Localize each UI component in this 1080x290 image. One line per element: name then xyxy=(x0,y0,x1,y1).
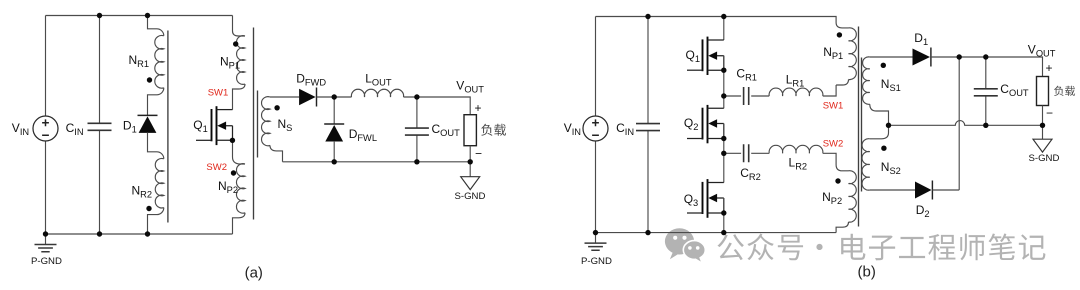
P-GND symbol (b) xyxy=(595,233,597,244)
wire center tap return with hop (b) xyxy=(889,121,1043,126)
transformer core (a) xyxy=(168,28,258,223)
load resistor (a) xyxy=(464,115,476,146)
capacitor C_R1 (b) xyxy=(724,95,769,97)
polarity dot N_R2 xyxy=(146,206,151,211)
polarity dot N_P2 xyxy=(231,170,236,175)
wire D2 vertical link (b) xyxy=(958,57,960,190)
load resistor (b) xyxy=(1037,77,1049,106)
winding N_R2 (a) xyxy=(155,158,164,208)
svg-text:SW2: SW2 xyxy=(823,138,844,149)
diode D_FWL (a) xyxy=(333,97,335,124)
winding N_S2 (b) xyxy=(870,125,889,139)
winding N_S1 (b) xyxy=(870,56,913,58)
diode D1 (a) xyxy=(139,116,157,132)
transistor Q3 (b) xyxy=(707,179,709,218)
transformer core (b) xyxy=(859,27,862,227)
wire output node (a) xyxy=(404,97,471,115)
wire V_IN branch (b) xyxy=(595,17,597,233)
svg-text:P-GND: P-GND xyxy=(31,256,62,267)
S-GND symbol (b) xyxy=(1042,125,1044,139)
inductor L_R2 (b) xyxy=(769,145,823,153)
junction dots (b) xyxy=(645,14,650,19)
svg-text:SW2: SW2 xyxy=(206,162,227,173)
polarity dot N_R1 xyxy=(147,77,152,82)
svg-text:SW1: SW1 xyxy=(823,101,844,112)
diode D2 (b) xyxy=(915,182,932,199)
wire Q1-Q2 link (b) xyxy=(723,56,725,109)
diode D1 (b) xyxy=(913,49,931,66)
capacitor C_IN (b) xyxy=(647,17,649,233)
wire Q2-Q3 link (b) xyxy=(723,124,725,183)
watermark text 公众号·电子工程师笔记 xyxy=(717,233,1045,260)
wire N_R1 branch (a) xyxy=(148,16,164,36)
wire V_IN branch (a) xyxy=(45,16,47,235)
watermark wechat icon xyxy=(665,228,705,263)
wire top output node (b) xyxy=(931,57,1043,77)
voltage source V_IN (a) xyxy=(33,116,58,141)
svg-text:S-GND: S-GND xyxy=(1029,153,1060,164)
wire to L_OUT (a) xyxy=(317,96,352,98)
S-GND symbol (a) xyxy=(469,162,471,177)
wire SW2 node (a) xyxy=(233,140,246,164)
wire SW2 node (b) xyxy=(823,153,849,171)
transistor Q1 (b) xyxy=(707,37,709,75)
polarity dot N_S1 (b) xyxy=(881,63,886,68)
wire N_S2 to D2 (b) xyxy=(870,189,915,191)
winding N_P1 (b) xyxy=(849,28,857,80)
inductor L_OUT (a) xyxy=(351,89,403,97)
svg-text:(b): (b) xyxy=(858,264,876,281)
capacitor C_OUT (b) xyxy=(985,57,987,125)
P-GND symbol (a) xyxy=(45,234,47,245)
wire SW1 node (b) xyxy=(823,85,836,96)
label 负载 (b) xyxy=(1054,86,1075,96)
wire top rail (b) xyxy=(596,17,849,28)
voltage source V_IN (b) xyxy=(583,116,608,141)
diode D_FWD (a) xyxy=(299,89,316,105)
svg-text:−: − xyxy=(475,147,482,161)
polarity dot N_P1 xyxy=(233,41,238,46)
label 负载 (a) xyxy=(481,124,506,136)
polarity dot N_P2 (b) xyxy=(835,178,840,183)
capacitor C_R2 (b) xyxy=(724,152,769,154)
svg-text:+: + xyxy=(475,101,482,115)
svg-text:−: − xyxy=(1046,106,1053,120)
svg-text:(a): (a) xyxy=(245,265,263,282)
polarity dot N_P1 (b) xyxy=(837,32,842,37)
winding N_P1 (a) xyxy=(237,36,245,85)
capacitor C_IN (a) xyxy=(99,16,101,235)
wire Q3 source to rail (b) xyxy=(723,198,725,233)
wire N_P1 branch (a) xyxy=(233,16,246,37)
transistor Q1 (a) xyxy=(216,106,218,145)
wire SW1 node (a) xyxy=(233,84,246,110)
inductor L_R1 (b) xyxy=(769,88,823,96)
svg-text:P-GND: P-GND xyxy=(581,256,612,267)
winding N_P2 (b) xyxy=(849,171,857,222)
wire bottom rail (a) xyxy=(46,233,233,235)
polarity dot N_S xyxy=(274,105,279,110)
winding N_R1 (a) xyxy=(155,35,164,88)
svg-text:S-GND: S-GND xyxy=(455,191,486,202)
svg-text:+: + xyxy=(1046,61,1053,75)
wire Q1 drain (b) xyxy=(723,17,725,41)
wire secondary bottom rail (a) xyxy=(283,161,471,163)
winding N_P2 (a) xyxy=(236,164,245,214)
junction dots (a) xyxy=(97,13,102,18)
transistor Q2 (b) xyxy=(707,105,709,143)
wire top rail (a) xyxy=(46,15,233,17)
svg-text:SW1: SW1 xyxy=(208,88,229,99)
wire bottom rail (b) xyxy=(596,232,837,234)
capacitor C_OUT (a) xyxy=(416,97,418,162)
polarity dot N_S2 (b) xyxy=(881,146,886,151)
winding N_S (a) xyxy=(270,96,299,98)
